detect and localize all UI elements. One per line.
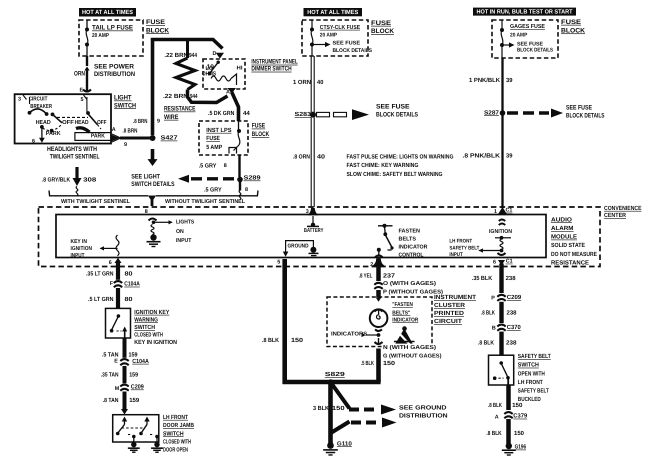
svg-text:C209: C209	[131, 384, 145, 391]
resistance wire stub upper	[186, 41, 189, 58]
svg-text:CONTROL: CONTROL	[399, 253, 425, 259]
svg-text:C104A: C104A	[132, 358, 149, 365]
see fuse block details arrow (inside center fuse box)	[314, 44, 325, 46]
svg-text:INDICATOR: INDICATOR	[392, 317, 418, 323]
svg-text:S289: S289	[244, 175, 262, 182]
svg-text:CTSY-CLK FUSE: CTSY-CLK FUSE	[320, 24, 360, 31]
svg-text:BELTS": BELTS"	[392, 310, 410, 316]
svg-text:PARK: PARK	[46, 131, 62, 137]
svg-text:SEE POWER: SEE POWER	[94, 64, 134, 71]
svg-text:OFF: OFF	[97, 119, 107, 126]
fuse block (right) dashed box	[492, 20, 558, 58]
svg-text:G (WITHOUT GAGES): G (WITHOUT GAGES)	[383, 353, 442, 360]
svg-text:WITHOUT TWILIGHT SENTINEL: WITHOUT TWILIGHT SENTINEL	[165, 199, 246, 205]
svg-text:CLUSTER: CLUSTER	[434, 302, 466, 309]
svg-text:FAST PULSE CHIME: LIGHTS ON WA: FAST PULSE CHIME: LIGHTS ON WARNING	[347, 153, 454, 160]
light switch pin A exit arrow	[112, 135, 120, 142]
wire S427 to see light switch details arrow	[151, 149, 155, 160]
svg-text:INDICATOR: INDICATOR	[399, 245, 428, 251]
dimmer pin A connector	[228, 88, 237, 94]
svg-text:.8 PNK/BLK: .8 PNK/BLK	[463, 153, 501, 160]
ground G196	[506, 443, 512, 449]
svg-text:.5 BLK: .5 BLK	[361, 360, 374, 367]
ignition input resistor	[499, 220, 505, 222]
svg-text:80: 80	[125, 270, 134, 277]
svg-text:LH FRONT: LH FRONT	[518, 379, 543, 386]
svg-text:INPUT: INPUT	[176, 238, 192, 244]
fasten belts indicator bulb	[378, 297, 380, 300]
svg-text:159: 159	[129, 372, 139, 379]
wire 3 blk 150 to G110	[328, 382, 333, 444]
svg-text:HEAD: HEAD	[36, 120, 51, 126]
wire .5 dk grn 44	[232, 92, 239, 121]
wire .35 tan 159	[123, 366, 127, 384]
ground (door jamb right)	[154, 442, 159, 447]
instrument cluster printed circuit dashed box	[327, 297, 432, 347]
svg-text:HOT AT ALL TIMES: HOT AT ALL TIMES	[82, 9, 133, 16]
splice S829	[328, 379, 334, 385]
svg-text:CONVENIENCE: CONVENIENCE	[604, 205, 642, 212]
svg-text:SAFETY BELT: SAFETY BELT	[449, 245, 480, 251]
svg-text:WITH TWILIGHT SENTINEL: WITH TWILIGHT SENTINEL	[61, 199, 131, 205]
svg-text:159: 159	[129, 351, 139, 358]
svg-text:LIGHT: LIGHT	[114, 95, 132, 102]
wire .8 gry/blk 308 with break	[75, 167, 78, 179]
svg-text:DOOR OPEN: DOOR OPEN	[163, 447, 188, 454]
svg-text:WIRE: WIRE	[164, 114, 179, 121]
convenience center dashed box	[39, 207, 601, 267]
ground (lights on input)	[150, 234, 156, 240]
fuse block (center) dashed box	[302, 20, 368, 56]
svg-text:.35 LT GRN: .35 LT GRN	[86, 270, 114, 277]
svg-text:C1: C1	[506, 208, 513, 214]
lights on input symbol	[152, 221, 156, 225]
ignition key warning switch box	[106, 308, 131, 338]
svg-text:BUCKLED: BUCKLED	[518, 396, 542, 403]
svg-text:C379: C379	[513, 413, 528, 420]
svg-text:SWITCH: SWITCH	[134, 324, 155, 331]
fasten belts indicator control switch	[378, 225, 393, 227]
svg-text:C370: C370	[507, 324, 522, 331]
svg-text:159: 159	[129, 397, 140, 404]
svg-text:A: A	[226, 90, 230, 96]
svg-text:TAIL LP FUSE: TAIL LP FUSE	[92, 25, 134, 32]
svg-text:SAFETY BELT: SAFETY BELT	[518, 353, 551, 360]
svg-text:IGNITION: IGNITION	[489, 229, 512, 235]
svg-text:2: 2	[370, 262, 373, 268]
svg-text:FUSE: FUSE	[561, 19, 582, 26]
svg-text:944: 944	[189, 52, 198, 59]
svg-text:44: 44	[243, 110, 250, 117]
svg-text:FUSE: FUSE	[206, 135, 220, 142]
tail lp fuse	[86, 20, 88, 29]
gages fuse	[501, 20, 503, 30]
svg-text:SEE FUSE: SEE FUSE	[333, 41, 361, 47]
wire .5 tan 159	[123, 338, 127, 359]
svg-text:SOLID STATE: SOLID STATE	[551, 242, 585, 249]
svg-text:20 AMP: 20 AMP	[320, 33, 338, 39]
svg-text:IGNITION KEY: IGNITION KEY	[134, 309, 169, 316]
svg-text:FAST CHIME: KEY WARNING: FAST CHIME: KEY WARNING	[347, 162, 419, 169]
svg-text:SLOW CHIME: SAFETY BELT WARNIN: SLOW CHIME: SAFETY BELT WARNING	[347, 171, 443, 178]
svg-text:20 AMP: 20 AMP	[92, 33, 109, 39]
hollow dashed arrow see fuse block details (S283)	[317, 112, 330, 116]
svg-text:DISTRIBUTION: DISTRIBUTION	[399, 412, 448, 419]
door jamb switch interior left	[124, 418, 126, 425]
svg-text:CIRCUIT: CIRCUIT	[29, 96, 48, 103]
wire .8 tan 159	[123, 392, 127, 410]
svg-text:PARK: PARK	[91, 134, 106, 140]
svg-text:.8 GRY/BLK: .8 GRY/BLK	[42, 176, 71, 183]
svg-text:SEE GROUND: SEE GROUND	[399, 405, 447, 412]
svg-text:.8 YEL: .8 YEL	[359, 272, 373, 279]
svg-text:SWITCH: SWITCH	[518, 362, 539, 369]
svg-text:8: 8	[245, 187, 248, 193]
cluster output pin N/G	[378, 338, 380, 343]
svg-text:HOT IN RUN, BULB TEST OR START: HOT IN RUN, BULB TEST OR START	[477, 9, 573, 16]
svg-text:G110: G110	[337, 440, 353, 447]
svg-text:150: 150	[512, 402, 523, 409]
dashed arrow see fuse block details (S287)	[507, 111, 549, 114]
svg-text:1 PNK/BLK: 1 PNK/BLK	[469, 77, 501, 84]
safety belt switch box	[489, 355, 514, 385]
svg-text:B: B	[492, 325, 496, 331]
svg-text:D: D	[213, 51, 217, 57]
svg-text:.8 ORN: .8 ORN	[293, 153, 310, 160]
svg-text:6: 6	[109, 260, 112, 266]
lh front door jamb switch box	[113, 415, 159, 442]
wire .5 gry 8 to S289	[238, 155, 240, 177]
svg-text:.8 BLK: .8 BLK	[488, 402, 502, 409]
splice S427	[150, 135, 156, 141]
svg-text:INSTRUMENT PANEL: INSTRUMENT PANEL	[251, 59, 297, 66]
svg-text:150: 150	[383, 360, 396, 367]
indicators arrow	[375, 329, 382, 331]
svg-text:BLOCK DETAILS: BLOCK DETAILS	[566, 113, 605, 120]
svg-text:A: A	[112, 127, 116, 133]
svg-text:INSTRUMENT: INSTRUMENT	[434, 294, 476, 301]
svg-text:.8 BLK: .8 BLK	[481, 310, 495, 317]
svg-text:.5 TAN: .5 TAN	[102, 351, 119, 358]
svg-text:BATTERY: BATTERY	[304, 228, 324, 234]
svg-text:3: 3	[306, 209, 309, 215]
svg-text:SEE FUSE: SEE FUSE	[517, 41, 543, 47]
svg-text:FUSE: FUSE	[146, 19, 166, 26]
svg-text:LH FRONT: LH FRONT	[449, 239, 472, 245]
svg-text:C209: C209	[507, 294, 522, 301]
svg-text:BELTS: BELTS	[399, 237, 417, 243]
svg-text:C104A: C104A	[124, 281, 140, 288]
door jamb switch interior right	[146, 418, 148, 425]
svg-text:150: 150	[291, 337, 304, 344]
svg-text:.5 GRY: .5 GRY	[199, 163, 217, 170]
svg-text:OFF: OFF	[62, 119, 74, 126]
svg-text:E: E	[114, 358, 118, 364]
svg-text:.8 BLK: .8 BLK	[478, 339, 495, 346]
svg-text:CIRCUIT: CIRCUIT	[434, 318, 462, 325]
svg-text:FUSE: FUSE	[371, 20, 392, 27]
pin 1 C1 flare	[498, 207, 507, 214]
wire .8 orn 40 (double line)	[310, 117, 312, 207]
ground (door jamb left)	[131, 442, 136, 447]
wire to splice S829	[283, 380, 381, 385]
svg-text:39: 39	[506, 153, 513, 160]
dimmer pin D connector	[216, 53, 224, 59]
svg-text:.8 BRN: .8 BRN	[133, 118, 147, 125]
svg-text:150: 150	[332, 405, 346, 412]
svg-text:S829: S829	[325, 371, 346, 378]
svg-text:INST LPS: INST LPS	[206, 127, 231, 134]
svg-text:.5 GRY: .5 GRY	[204, 186, 222, 193]
svg-text:DISTRIBUTION: DISTRIBUTION	[94, 71, 135, 78]
svg-text:PRINTED: PRINTED	[434, 310, 465, 317]
svg-text:INDICATORS: INDICATORS	[331, 332, 367, 338]
svg-text:.22 BRN: .22 BRN	[163, 93, 188, 100]
svg-text:BLOCK DETAILS: BLOCK DETAILS	[333, 48, 373, 54]
svg-text:5: 5	[81, 97, 84, 103]
wire .8 brn light switch to S427	[120, 137, 151, 140]
wire .8 blk 238 (upper)	[499, 302, 503, 323]
branch to ground distribution (lower)	[332, 422, 350, 433]
wire 1 pnk/blk 39	[501, 58, 503, 111]
left switch off dashed line	[57, 116, 88, 118]
svg-text:LH FRONT: LH FRONT	[163, 414, 188, 421]
svg-text:HI: HI	[237, 66, 244, 72]
svg-text:CENTER: CENTER	[604, 212, 627, 219]
inst lps fuse box	[199, 121, 248, 155]
svg-text:238: 238	[506, 339, 517, 346]
inst lps fuse element	[238, 121, 240, 130]
wire 1 orn 40 (double line)	[310, 56, 312, 112]
svg-text:3: 3	[18, 96, 21, 102]
svg-text:3 BLK: 3 BLK	[313, 405, 330, 412]
svg-text:A: A	[495, 414, 499, 420]
wire .8 blk 238 (lower)	[499, 332, 503, 355]
connector O/P to cluster	[375, 282, 381, 290]
svg-text:S287: S287	[484, 109, 500, 116]
svg-text:.8 BLK: .8 BLK	[262, 337, 280, 344]
splice S289	[237, 177, 243, 183]
svg-text:TWILIGHT SENTINEL: TWILIGHT SENTINEL	[50, 153, 100, 160]
connector E at light switch	[83, 90, 91, 92]
svg-text:SEE LIGHT: SEE LIGHT	[131, 174, 160, 181]
svg-text:"FASTEN: "FASTEN	[392, 302, 413, 308]
svg-text:M: M	[115, 386, 120, 392]
light switch box	[15, 94, 111, 143]
svg-text:DOOR JAMB: DOOR JAMB	[163, 422, 195, 429]
svg-text:.8 TAN: .8 TAN	[103, 397, 119, 404]
svg-text:238: 238	[506, 275, 517, 282]
svg-text:.5 LT GRN: .5 LT GRN	[88, 296, 114, 303]
svg-text:.35 BLK: .35 BLK	[472, 275, 493, 282]
svg-text:.8 BRN: .8 BRN	[123, 127, 138, 134]
hot at all times label (center)	[304, 8, 363, 16]
svg-text:P: P	[491, 296, 495, 302]
svg-text:AUDIO: AUDIO	[551, 216, 572, 223]
svg-text:CLOSED WITH: CLOSED WITH	[163, 439, 191, 446]
svg-text:.8 BLK: .8 BLK	[486, 430, 502, 437]
svg-text:20 AMP: 20 AMP	[510, 33, 528, 39]
svg-text:944: 944	[190, 93, 198, 100]
svg-text:SEE FUSE: SEE FUSE	[376, 104, 410, 111]
svg-text:BLOCK DETAILS: BLOCK DETAILS	[517, 48, 553, 54]
svg-text:MODULE: MODULE	[551, 234, 577, 241]
resistance wire lower stub to dimmer pin A	[188, 90, 228, 103]
svg-text:9: 9	[157, 118, 160, 124]
svg-text:5 AMP: 5 AMP	[206, 144, 222, 151]
svg-text:5: 5	[277, 260, 280, 266]
svg-text:.5 DK GRN: .5 DK GRN	[208, 110, 234, 117]
svg-text:SWITCH: SWITCH	[114, 102, 136, 109]
svg-text:CLOSED WITH: CLOSED WITH	[134, 332, 163, 339]
svg-text:ORN: ORN	[74, 71, 85, 78]
svg-text:BLOCK: BLOCK	[252, 131, 270, 138]
svg-text:ALARM: ALARM	[551, 225, 574, 232]
wire .35 blk 238 from pin 6 C1	[498, 260, 505, 266]
seat belt icon	[396, 330, 412, 344]
svg-text:S283: S283	[295, 111, 312, 118]
svg-text:9: 9	[124, 142, 127, 148]
svg-text:SWITCH DETAILS: SWITCH DETAILS	[131, 181, 175, 188]
svg-text:OPEN WITH: OPEN WITH	[518, 370, 545, 377]
wire .5 lt grn 80	[116, 288, 120, 308]
svg-text:BLOCK DETAILS: BLOCK DETAILS	[376, 112, 419, 119]
bracket arrow to pin 8	[148, 196, 156, 202]
svg-text:C1: C1	[506, 259, 513, 265]
svg-text:SWITCH: SWITCH	[163, 430, 184, 437]
svg-text:238: 238	[507, 310, 518, 317]
wire .8 blk 150 to G196	[506, 419, 511, 444]
svg-text:BLOCK: BLOCK	[371, 28, 394, 35]
svg-text:BLOCK: BLOCK	[146, 27, 169, 34]
wire .8 blk 150 below switch	[506, 385, 511, 410]
ctsy-clk fuse	[311, 20, 313, 29]
svg-text:WARNING: WARNING	[134, 316, 158, 323]
svg-text:40: 40	[317, 79, 324, 86]
svg-text:40: 40	[317, 153, 326, 160]
svg-text:DIMMER SWITCH: DIMMER SWITCH	[251, 66, 291, 73]
svg-text:HOT AT ALL TIMES: HOT AT ALL TIMES	[307, 9, 358, 16]
see fuse arrow (inside right fuse box)	[504, 44, 509, 46]
ground G110	[327, 442, 334, 449]
svg-text:IGNITION: IGNITION	[71, 246, 93, 252]
right switch thick blade	[76, 128, 90, 132]
wire ORN tail fuse to light switch	[86, 56, 88, 66]
svg-text:FASTEN: FASTEN	[399, 229, 421, 235]
left switch park	[50, 129, 54, 133]
left switch head contact	[40, 125, 44, 129]
wire .8 pnk/blk 39 to convenience center	[501, 116, 503, 209]
svg-text:SAFETY BELT: SAFETY BELT	[518, 388, 549, 395]
svg-text:.35 TAN: .35 TAN	[101, 372, 119, 379]
svg-text:HEAD: HEAD	[75, 120, 89, 126]
left switch blade	[53, 114, 63, 122]
svg-text:BLOCK: BLOCK	[561, 27, 585, 34]
hot at all times label (left)	[79, 8, 136, 17]
dashed arrow to see light switch details	[191, 177, 237, 180]
svg-text:E: E	[80, 88, 84, 94]
svg-text:6: 6	[493, 260, 496, 266]
svg-text:S427: S427	[161, 135, 179, 142]
svg-text:6: 6	[32, 139, 35, 145]
svg-text:O (WITH GAGES): O (WITH GAGES)	[383, 280, 436, 287]
svg-text:KEY IN IGNITION: KEY IN IGNITION	[134, 339, 177, 346]
svg-text:ON: ON	[176, 229, 184, 235]
svg-text:N (WITH GAGES): N (WITH GAGES)	[383, 344, 436, 351]
svg-text:KEY IN: KEY IN	[71, 239, 88, 245]
svg-text:80: 80	[125, 296, 134, 303]
fuse block (left) dashed box	[79, 20, 143, 56]
wire .5 gry 8 below S289 with break	[239, 182, 241, 191]
splice S287	[500, 110, 506, 116]
twilight sentinel bracket	[49, 191, 148, 196]
svg-text:308: 308	[83, 176, 97, 183]
svg-text:1 ORN: 1 ORN	[293, 79, 311, 86]
svg-text:GAGES FUSE: GAGES FUSE	[510, 23, 545, 30]
instrument panel dimmer switch box	[203, 59, 245, 89]
svg-text:8: 8	[224, 163, 227, 169]
splice S283	[310, 112, 316, 118]
svg-text:FUSE: FUSE	[252, 123, 266, 130]
svg-text:8: 8	[145, 209, 148, 215]
svg-text:LIGHTS: LIGHTS	[176, 220, 194, 226]
park contact box	[75, 133, 111, 141]
audio alarm module inner box	[56, 215, 546, 258]
svg-text:237: 237	[383, 272, 396, 279]
battery terminal symbol	[311, 223, 315, 227]
ground (internal, pin 5)	[286, 241, 314, 252]
svg-text:39: 39	[506, 77, 513, 84]
svg-text:RESISTANCE: RESISTANCE	[551, 259, 589, 266]
svg-text:SEE FUSE: SEE FUSE	[566, 104, 593, 111]
svg-text:GROUND: GROUND	[288, 244, 309, 250]
svg-text:RESISTANCE: RESISTANCE	[164, 106, 196, 113]
svg-text:G196: G196	[515, 444, 527, 451]
wire .8 yel 237 from pin 2	[373, 259, 384, 266]
branch to ground distribution (upper)	[332, 384, 350, 409]
svg-text:150: 150	[514, 430, 525, 437]
svg-text:DO NOT MEASURE: DO NOT MEASURE	[551, 251, 597, 258]
resistance wire zigzag 10 ohms	[176, 58, 195, 90]
svg-text:INPUT: INPUT	[71, 253, 85, 259]
wire .5 blk 150	[376, 349, 381, 383]
wire .8 blk 150 from pin 5	[282, 259, 287, 384]
right switch	[86, 97, 88, 112]
wire resistance-wire branch (thick bend to dimmer pin D)	[153, 40, 223, 136]
hot in run bulb test or start label	[473, 8, 576, 16]
svg-text:INPUT: INPUT	[449, 252, 463, 258]
svg-text:HEADLIGHTS WITH: HEADLIGHTS WITH	[47, 146, 97, 153]
